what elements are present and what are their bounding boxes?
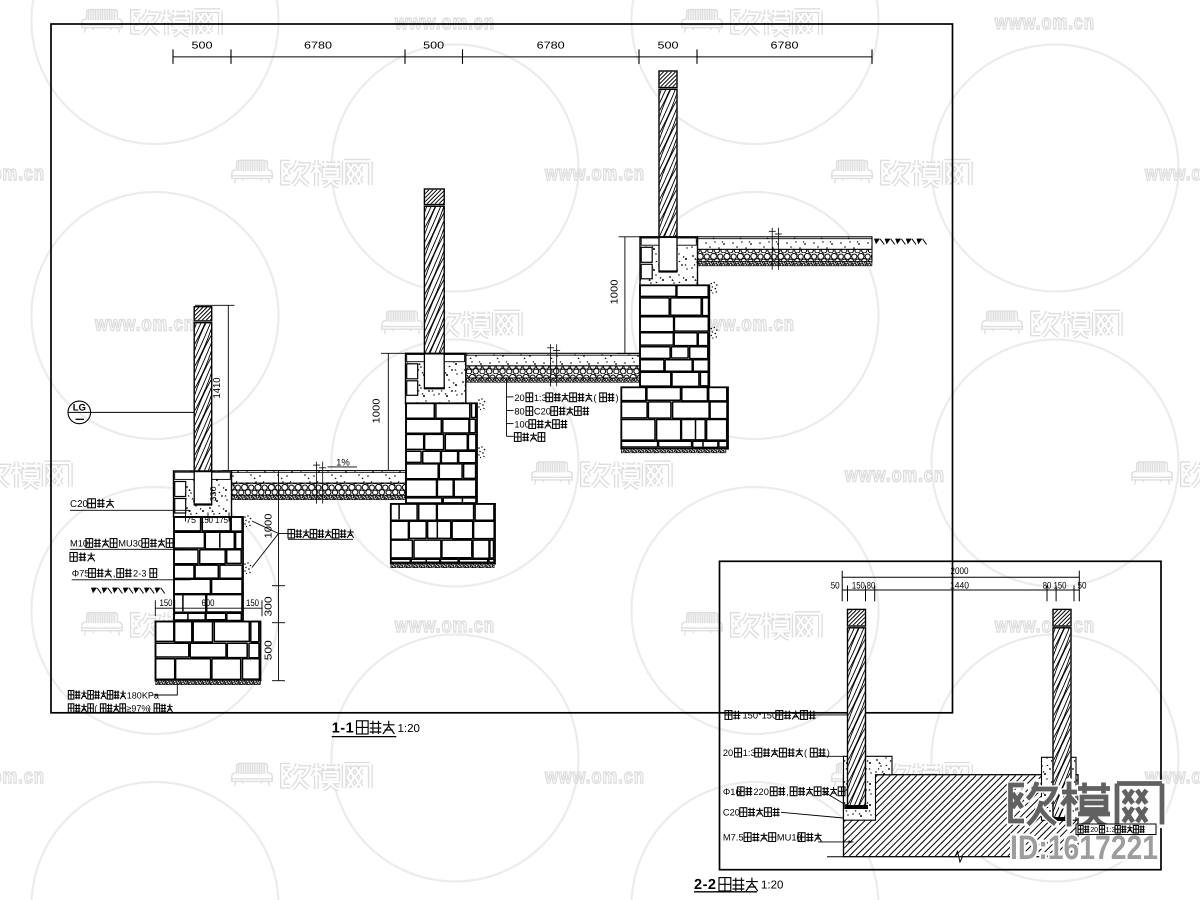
svg-text:500: 500 <box>658 40 680 51</box>
svg-text:75: 75 <box>186 515 196 525</box>
svg-text:www.om.cn: www.om.cn <box>0 162 45 185</box>
svg-text:Φ75: Φ75 <box>72 569 90 579</box>
svg-text:80: 80 <box>867 580 876 591</box>
svg-text:): ) <box>148 704 151 714</box>
svg-text:1:3: 1:3 <box>534 393 547 403</box>
svg-text:1000: 1000 <box>372 398 383 423</box>
svg-text:1-1: 1-1 <box>332 720 354 736</box>
svg-text:www.om.cn: www.om.cn <box>544 765 645 788</box>
svg-text:175: 175 <box>215 515 228 525</box>
svg-text:2-2: 2-2 <box>694 877 716 893</box>
svg-text:≥97%: ≥97% <box>126 704 149 714</box>
svg-text:www.om.cn: www.om.cn <box>994 11 1095 34</box>
svg-text:100: 100 <box>514 420 530 430</box>
svg-text:330: 330 <box>208 486 218 501</box>
svg-text:C20: C20 <box>70 499 89 510</box>
svg-text:150: 150 <box>246 598 259 609</box>
svg-text:www.om.cn: www.om.cn <box>844 463 945 486</box>
svg-text:1:3: 1:3 <box>743 748 756 758</box>
svg-text:6780: 6780 <box>304 40 333 51</box>
svg-text:6780: 6780 <box>537 40 566 51</box>
svg-text:1440: 1440 <box>950 580 969 591</box>
svg-text:2000: 2000 <box>951 566 969 577</box>
svg-text:20: 20 <box>1090 825 1098 834</box>
svg-text:1:3: 1:3 <box>1106 825 1116 834</box>
svg-text:www.om.cn: www.om.cn <box>994 614 1095 637</box>
svg-text:80: 80 <box>514 407 524 417</box>
svg-text:150: 150 <box>200 515 213 525</box>
svg-text:50: 50 <box>831 580 840 591</box>
svg-text:150*150: 150*150 <box>743 711 778 721</box>
svg-text:www.om.cn: www.om.cn <box>1144 162 1200 185</box>
svg-text:1000: 1000 <box>609 279 620 304</box>
svg-text:1410: 1410 <box>212 377 223 398</box>
svg-text:500: 500 <box>264 640 275 661</box>
svg-text:20: 20 <box>723 748 733 758</box>
svg-text:C20: C20 <box>723 808 740 818</box>
svg-text:150: 150 <box>852 580 865 591</box>
svg-text:1:20: 1:20 <box>761 879 783 891</box>
svg-text:1000: 1000 <box>264 513 275 538</box>
svg-text:2-3: 2-3 <box>133 569 146 579</box>
svg-text:M7.5: M7.5 <box>723 833 744 843</box>
svg-text:,: , <box>113 569 116 579</box>
svg-text:www.om.cn: www.om.cn <box>394 614 495 637</box>
svg-text:500: 500 <box>423 40 445 51</box>
svg-text:600: 600 <box>202 598 215 609</box>
svg-text:www.om.cn: www.om.cn <box>544 162 645 185</box>
svg-text:LG: LG <box>73 402 86 413</box>
svg-text:80: 80 <box>1043 580 1052 591</box>
svg-text:,: , <box>786 787 789 797</box>
svg-text:www.om.cn: www.om.cn <box>0 765 45 788</box>
svg-text:6780: 6780 <box>771 40 800 51</box>
svg-text:C20: C20 <box>534 407 551 417</box>
svg-text:www.om.cn: www.om.cn <box>94 313 195 336</box>
svg-text:300: 300 <box>264 596 275 617</box>
svg-text:(: ( <box>94 704 97 714</box>
svg-text:MU30: MU30 <box>118 539 143 549</box>
svg-text:www.om.cn: www.om.cn <box>394 11 495 34</box>
svg-text:1:20: 1:20 <box>398 723 420 735</box>
svg-text:50: 50 <box>1078 580 1087 591</box>
svg-text:500: 500 <box>192 40 214 51</box>
svg-text:220: 220 <box>753 787 769 797</box>
svg-text:150: 150 <box>160 598 173 609</box>
svg-text:20: 20 <box>514 393 524 403</box>
svg-text:150: 150 <box>1054 580 1067 591</box>
svg-text:): ) <box>616 393 619 403</box>
